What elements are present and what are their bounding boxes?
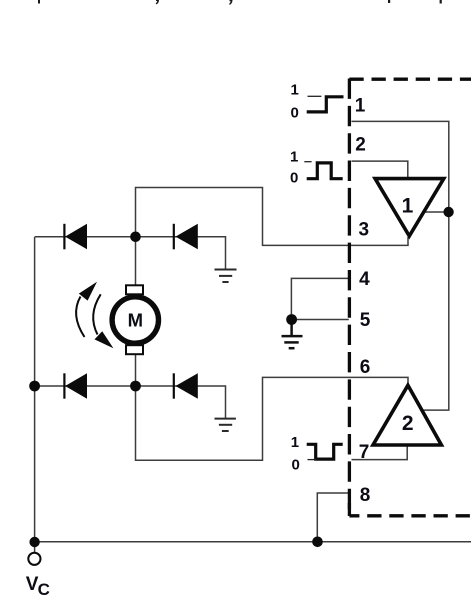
svg-text:8: 8 (360, 485, 371, 506)
svg-text:M: M (128, 310, 143, 331)
svg-text:0: 0 (291, 105, 299, 122)
svg-text:7: 7 (359, 442, 370, 463)
svg-text:3: 3 (359, 219, 370, 240)
svg-text:5: 5 (360, 310, 371, 331)
svg-text:1: 1 (402, 194, 414, 217)
svg-text:2: 2 (355, 135, 366, 156)
svg-text:1: 1 (290, 148, 298, 165)
svg-text:0: 0 (292, 457, 300, 474)
svg-text:6: 6 (360, 357, 371, 378)
svg-text:4: 4 (359, 269, 370, 290)
svg-text:1: 1 (355, 96, 366, 117)
svg-text:1: 1 (291, 82, 299, 99)
svg-text:C: C (38, 580, 50, 599)
svg-text:0: 0 (290, 170, 298, 187)
svg-text:2: 2 (402, 412, 414, 435)
svg-text:1: 1 (291, 434, 299, 451)
